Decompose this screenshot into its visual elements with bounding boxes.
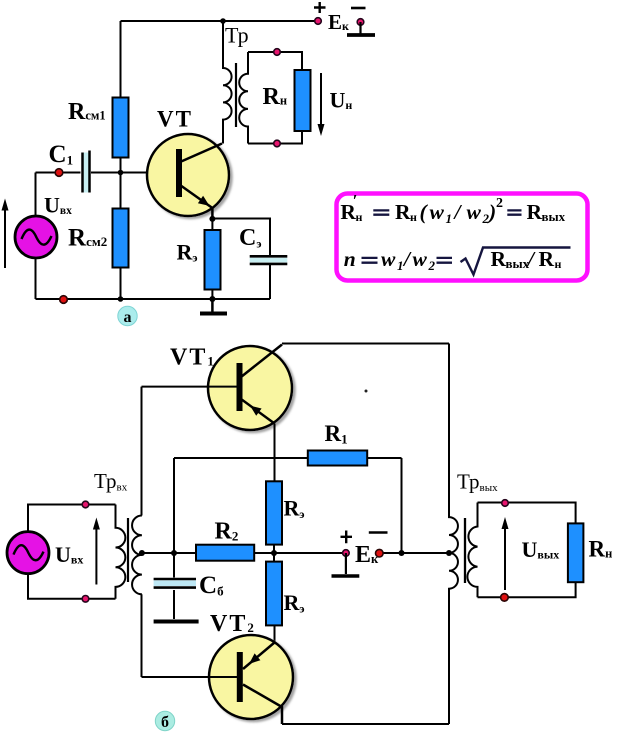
svg-text:VT2: VT2	[210, 611, 254, 637]
svg-text:б: б	[161, 714, 169, 731]
svg-text:Тр: Тр	[225, 23, 249, 48]
svg-text:VT1: VT1	[170, 345, 214, 371]
svg-text:а: а	[124, 309, 132, 326]
svg-text:VT: VT	[157, 107, 193, 132]
